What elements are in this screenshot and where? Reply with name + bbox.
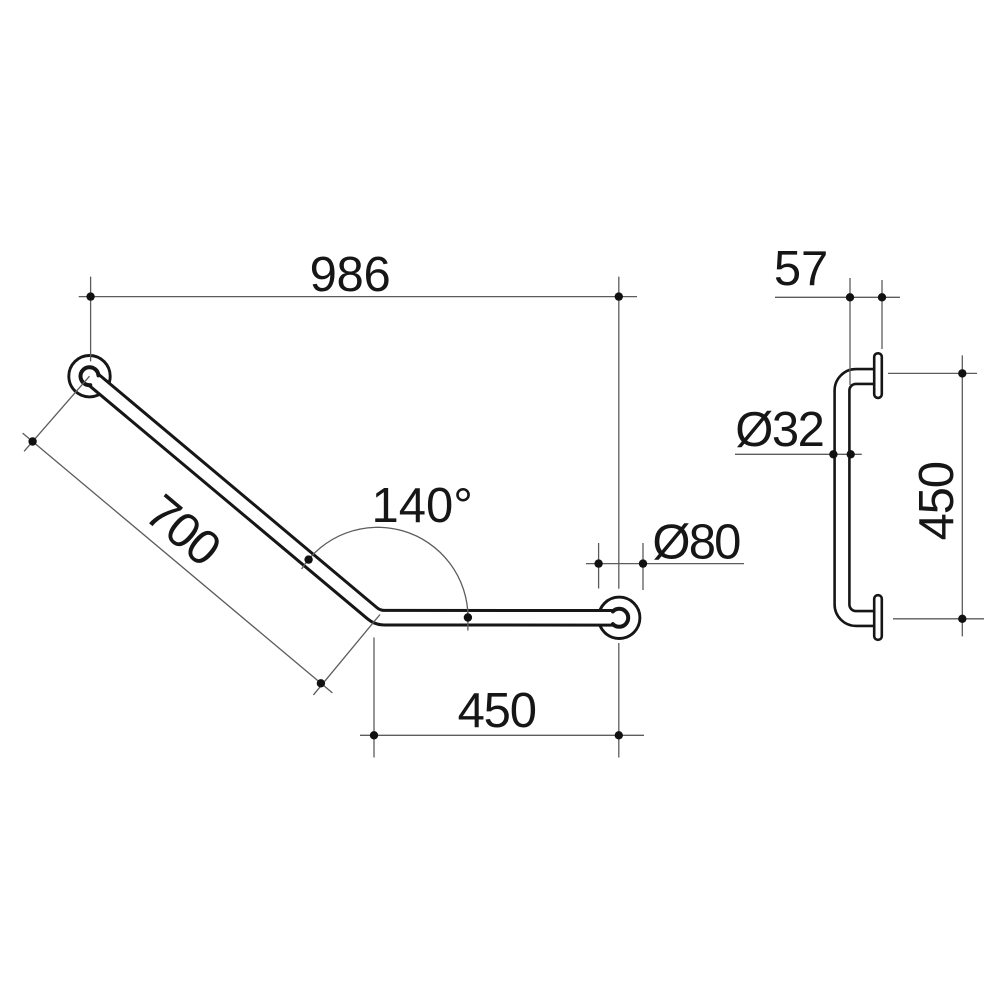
svg-text:986: 986 bbox=[310, 248, 391, 302]
svg-text:Ø32: Ø32 bbox=[735, 403, 823, 457]
svg-text:57: 57 bbox=[774, 242, 828, 296]
svg-text:140°: 140° bbox=[372, 479, 473, 533]
svg-text:450: 450 bbox=[458, 684, 536, 738]
svg-text:Ø80: Ø80 bbox=[652, 516, 740, 570]
svg-text:450: 450 bbox=[910, 462, 964, 540]
